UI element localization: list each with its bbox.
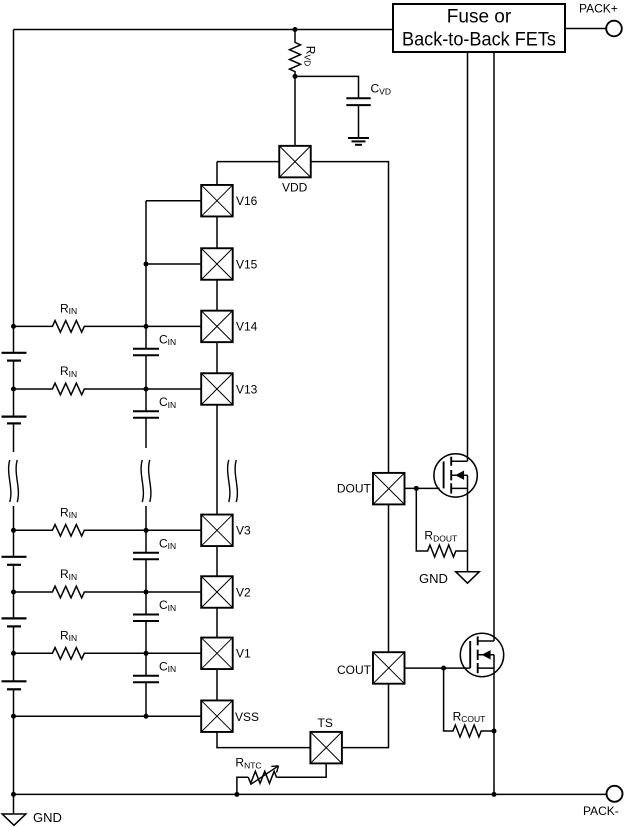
wire DOUT gate	[405, 487, 440, 489]
wire Q2 source to bottom bus	[493, 668, 495, 794]
capacitor CVD	[346, 98, 370, 105]
ground symbol bottom left	[2, 794, 26, 825]
wire pin column segments	[216, 162, 218, 701]
resistor RVD	[290, 30, 301, 77]
pin V14	[201, 311, 233, 343]
pin VDD	[279, 146, 311, 178]
wire VSS to TS	[217, 732, 310, 748]
break symbol left column	[9, 460, 19, 502]
box Fuse or Back-to-Back FETs	[393, 4, 565, 52]
pin V1	[201, 638, 233, 670]
capacitor CIN (V1 row)	[133, 676, 159, 683]
wire VSS row	[14, 715, 202, 717]
svg-text:VSS: VSS	[235, 710, 259, 724]
svg-text:GND: GND	[419, 571, 448, 586]
transistor Q1 (discharge NMOS)	[434, 454, 477, 497]
pin DOUT	[373, 473, 405, 505]
pin VSS	[201, 700, 233, 732]
svg-text:Back-to-Back FETs: Back-to-Back FETs	[402, 30, 556, 51]
wire bottom bus PACK- net	[14, 793, 607, 795]
resistor RNTC (thermistor) with wire	[237, 763, 326, 794]
capacitor CIN (V3 row)	[133, 553, 159, 560]
break symbol pin column	[228, 460, 238, 502]
svg-text:VDD: VDD	[282, 181, 308, 195]
resistor RIN (V1 row) with wire	[14, 648, 202, 660]
svg-text:PACK+: PACK+	[579, 2, 618, 16]
battery cell top1	[2, 353, 27, 361]
svg-text:COUT: COUT	[337, 663, 372, 677]
break symbol filter column	[141, 460, 151, 502]
pin V3	[201, 515, 233, 547]
wire fuse to Q1 drain	[467, 52, 469, 461]
wire filter column upper (node between RIN and CIN)	[145, 201, 147, 448]
svg-text:V14: V14	[236, 320, 258, 334]
wire V16 row	[146, 200, 201, 202]
battery cell top2	[2, 417, 27, 424]
svg-text:GND: GND	[33, 810, 62, 825]
ground symbol Q1 source	[456, 572, 480, 584]
svg-text:Fuse or: Fuse or	[447, 7, 512, 28]
pin COUT	[373, 652, 405, 684]
pin V13	[201, 373, 233, 405]
battery cell low1	[2, 557, 27, 565]
wire CVD branch	[295, 76, 359, 138]
wire VDD vertical	[294, 76, 296, 145]
capacitor CIN (V14 row)	[133, 349, 159, 356]
resistor RDOUT with wire	[416, 488, 467, 557]
resistor RIN (V13 row) with wire	[14, 383, 202, 395]
pin V16	[201, 185, 233, 217]
wire V15 row	[146, 263, 201, 265]
svg-text:V13: V13	[236, 382, 258, 396]
wire left battery column lower section	[13, 506, 15, 794]
ground symbol CVD (bars)	[348, 138, 369, 145]
wire fuse to Q2 drain	[493, 52, 495, 641]
wire COUT gate	[405, 667, 471, 669]
resistor RCOUT with wire	[444, 668, 494, 737]
resistor RIN (V3 row) with wire	[14, 525, 202, 537]
wire VDD to V16 column	[217, 161, 279, 163]
transistor Q2 (charge NMOS)	[460, 633, 503, 676]
battery cell low3	[2, 681, 27, 689]
wire VDD to DOUT column	[311, 162, 389, 473]
svg-text:V3: V3	[236, 524, 251, 538]
svg-text:TS: TS	[318, 716, 333, 730]
svg-text:V1: V1	[236, 647, 251, 661]
svg-text:V2: V2	[236, 585, 251, 599]
svg-text:DOUT: DOUT	[337, 481, 372, 495]
capacitor CIN (V2 row)	[133, 615, 159, 622]
capacitor CIN (V13 row)	[133, 411, 159, 418]
pin TS	[310, 732, 342, 764]
wire DOUT to COUT column	[388, 504, 390, 652]
terminal PACK+	[606, 21, 622, 37]
wire COUT to TS	[342, 684, 389, 748]
battery cell low2	[2, 618, 27, 626]
wire filter column lower	[145, 506, 147, 716]
svg-text:V15: V15	[236, 257, 258, 271]
pin V15	[201, 248, 233, 280]
svg-text:PACK-: PACK-	[583, 804, 619, 818]
wire left battery column top section	[13, 30, 15, 453]
thermistor arrow	[250, 766, 278, 785]
wire fuse to PACK+ terminal	[565, 28, 606, 30]
wire top bus PACK+ net	[14, 29, 394, 31]
pin V2	[201, 576, 233, 608]
resistor RIN (V2 row) with wire	[14, 586, 202, 598]
svg-text:V16: V16	[236, 194, 258, 208]
wire Q1 source to GND	[467, 488, 469, 571]
resistor RIN (V14 row) with wire	[14, 321, 202, 333]
terminal PACK-	[607, 786, 623, 802]
